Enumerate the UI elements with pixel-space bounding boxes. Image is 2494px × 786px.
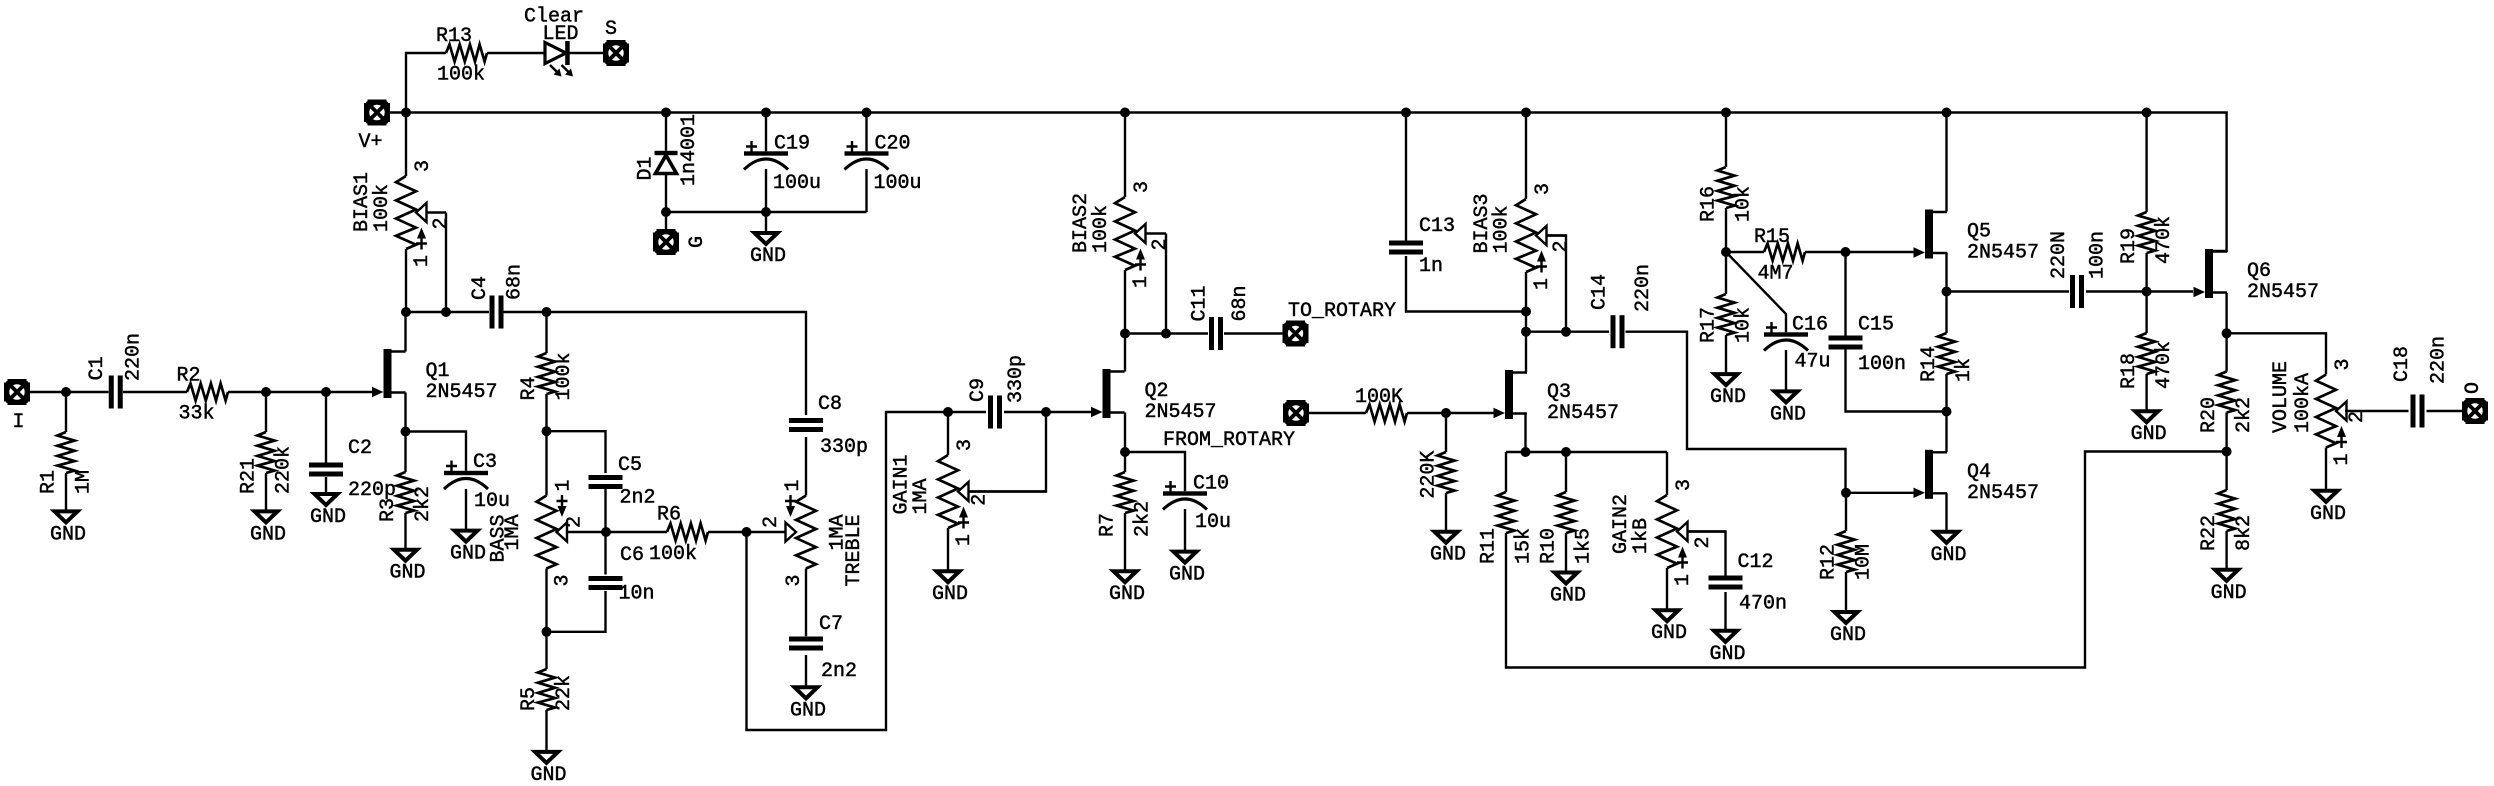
svg-text:100k: 100k — [649, 543, 697, 566]
wire Q4 gate node to R12 — [1845, 493, 1847, 531]
capacitor C2 plates — [309, 463, 343, 477]
svg-text:2N5457: 2N5457 — [1145, 401, 1217, 424]
svg-text:2: 2 — [1692, 536, 1715, 548]
svg-text:R2: R2 — [177, 365, 201, 388]
wire node to C2 — [325, 392, 327, 463]
svg-text:R15: R15 — [1754, 226, 1790, 249]
svg-text:R19: R19 — [2118, 228, 2141, 264]
svg-text:100u: 100u — [773, 172, 821, 195]
svg-text:2N5457: 2N5457 — [426, 381, 498, 404]
ground below C7 — [790, 687, 826, 722]
svg-text:330p: 330p — [820, 436, 868, 459]
wire node to C14 — [1526, 331, 1609, 333]
potentiometer GAIN1 1MA — [891, 439, 1047, 546]
junction R15 / C15 / Q5 gate — [1841, 247, 1851, 257]
svg-text:2: 2 — [1149, 238, 1172, 250]
connector G pad — [653, 229, 679, 255]
capacitor C10 10u — [1163, 473, 1231, 535]
capacitor C5 plates — [589, 475, 623, 489]
junction R14 / C15 / Q4 drain — [1942, 407, 1952, 417]
svg-text:GND: GND — [1550, 585, 1586, 608]
svg-text:C3: C3 — [473, 451, 497, 474]
svg-text:GND: GND — [2131, 423, 2167, 446]
svg-text:GND: GND — [390, 562, 426, 585]
wire rail to C20 — [865, 113, 867, 152]
wire I pad to C1 — [29, 391, 109, 393]
connector O output pad — [2462, 398, 2488, 424]
wire node to R21 — [265, 392, 267, 432]
capacitor C20 plates — [845, 141, 889, 170]
svg-text:1: 1 — [782, 479, 805, 491]
svg-text:GND: GND — [1710, 643, 1746, 666]
transistor Q1 2N5457 — [372, 349, 498, 404]
junction R10 top — [1561, 447, 1571, 457]
junction wiper / row — [441, 307, 451, 317]
junction Q2 source / R7 / C10 — [1120, 447, 1130, 457]
svg-text:R22: R22 — [2198, 515, 2221, 551]
wire rail to BIAS3 — [1525, 113, 1527, 200]
svg-text:C13: C13 — [1419, 215, 1455, 238]
svg-text:GND: GND — [310, 506, 346, 529]
potentiometer VOLUME 100kA — [2270, 358, 2369, 465]
svg-text:TO_ROTARY: TO_ROTARY — [1288, 300, 1396, 323]
svg-text:GND: GND — [2211, 582, 2247, 605]
svg-text:100k: 100k — [553, 352, 576, 400]
wire tone loop to C9 — [747, 412, 987, 730]
wire C19 to GND — [765, 212, 767, 233]
capacitor C1 220n — [86, 333, 146, 409]
ground below C12 — [1710, 631, 1746, 666]
wire node to R14 — [1945, 292, 1947, 334]
svg-text:C6: C6 — [620, 544, 644, 567]
wire to GAIN2 — [1666, 452, 1668, 495]
wire R7 to GND — [1124, 513, 1126, 571]
wire node to R7 — [1124, 452, 1126, 472]
wire to R11 — [1505, 452, 1507, 492]
wire rail to BIAS1 — [405, 113, 407, 177]
wire node to R22 — [2225, 452, 2227, 491]
capacitor C18 plates — [2411, 395, 2425, 428]
capacitor C4 plates — [490, 296, 504, 329]
capacitor C8 plates — [789, 418, 823, 432]
wire rail to BIAS2 — [1124, 113, 1126, 198]
wire Q5 drain to rail — [1945, 113, 1947, 212]
svg-text:3: 3 — [1532, 183, 1555, 195]
svg-text:100k: 100k — [371, 184, 394, 232]
junction C4 / R4 — [542, 307, 552, 317]
svg-text:2: 2 — [430, 217, 453, 229]
svg-text:1n: 1n — [1419, 255, 1443, 278]
connector V+ pad — [364, 100, 390, 126]
ground below VOLUME — [2310, 491, 2346, 526]
capacitor C9 330p — [967, 355, 1028, 429]
svg-text:C5: C5 — [618, 454, 642, 477]
wire node to C10 — [1125, 452, 1185, 491]
wire Q6 source down — [2225, 293, 2227, 333]
wire GAIN2 wiper to C12 — [1687, 532, 1726, 576]
wire wiper node to C6 — [604, 532, 606, 575]
capacitor C16 47u — [1764, 314, 1831, 374]
junction C2 / gate — [321, 387, 331, 397]
svg-text:1: 1 — [553, 479, 576, 491]
wire D1 anode down — [665, 174, 667, 213]
svg-text:220k: 220k — [273, 446, 296, 494]
svg-text:Q6: Q6 — [2247, 260, 2271, 283]
svg-text:GND: GND — [250, 523, 286, 546]
wire node to BASS — [545, 431, 547, 495]
wire C2 to GND — [325, 477, 327, 494]
svg-text:R11: R11 — [1478, 528, 1501, 564]
resistor R11 15k — [1478, 492, 1536, 564]
wire node diagonal to C16 — [1726, 252, 1786, 332]
capacitor C19 100u — [744, 133, 821, 196]
svg-text:220n: 220n — [2427, 336, 2450, 384]
svg-text:470k: 470k — [2153, 216, 2176, 264]
svg-text:2: 2 — [2346, 411, 2369, 423]
wire LED to S pad — [570, 52, 605, 54]
svg-text:R18: R18 — [2118, 353, 2141, 389]
wire rail to C19 — [765, 113, 767, 152]
junction BASS / C6 / R5 — [542, 627, 552, 637]
svg-text:GND: GND — [1169, 564, 1205, 587]
svg-text:C14: C14 — [1589, 274, 1612, 310]
wire Q2 source down — [1124, 413, 1126, 453]
capacitor C2 220p — [309, 437, 396, 502]
capacitor 220N plates — [2070, 275, 2084, 308]
wire C16 to GND — [1785, 350, 1787, 391]
capacitor C11 68n — [1189, 285, 1253, 350]
svg-text:GND: GND — [932, 583, 968, 606]
svg-text:3: 3 — [412, 160, 435, 172]
junction R19 / R18 / Q6 gate — [2142, 287, 2152, 297]
wire Q5 source down — [1945, 253, 1947, 292]
svg-text:15k: 15k — [1513, 528, 1536, 564]
wire C9 to Q2 gate node — [1004, 411, 1046, 413]
junction rail / Q5 drain — [1942, 108, 1952, 118]
svg-text:470k: 470k — [2153, 341, 2176, 389]
junction Q2 gate / GAIN1 wiper — [1041, 407, 1051, 417]
wire 100K to Q3 gate — [1407, 412, 1494, 414]
svg-text:GND: GND — [531, 764, 567, 786]
junction rail / C19 — [761, 108, 771, 118]
ground below R18 — [2131, 411, 2167, 446]
wire R5 to GND — [545, 710, 547, 752]
wire node to 220K — [1445, 413, 1447, 452]
wire GAIN1 to GND — [947, 528, 949, 571]
junction BIAS2 wiper — [1161, 329, 1171, 339]
resistor R6 100k — [649, 504, 708, 567]
svg-text:10k: 10k — [1733, 186, 1756, 222]
wire R16 to node — [1725, 208, 1727, 252]
wire node to GAIN1 — [947, 412, 949, 455]
svg-text:2N5457: 2N5457 — [1547, 402, 1619, 425]
svg-text:220N: 220N — [2048, 231, 2071, 279]
resistor R22 8k2 — [2198, 490, 2256, 551]
junction rail / BIAS2 — [1120, 108, 1130, 118]
capacitor C9 plates — [988, 396, 1002, 429]
potentiometer GAIN2 1kB — [1610, 479, 1726, 586]
capacitor C6 plates — [589, 576, 623, 590]
svg-text:220n: 220n — [123, 333, 146, 381]
svg-text:C7: C7 — [819, 613, 843, 636]
wire C13 to BIAS3 bottom node — [1406, 256, 1526, 312]
wire C10 to GND — [1184, 509, 1186, 552]
svg-text:C9: C9 — [967, 378, 990, 402]
diode D1 1n4001 — [655, 151, 678, 174]
junction C13 / BIAS3 — [1521, 307, 1531, 317]
svg-text:GND: GND — [1931, 544, 1967, 567]
wire Q4 source to GND — [1945, 493, 1947, 532]
wire node to C4 — [406, 311, 489, 313]
svg-text:R20: R20 — [2198, 397, 2221, 433]
resistor 100K — [1366, 404, 1407, 421]
junction rail / R19 — [2142, 108, 2152, 118]
wire C4 to C8 — [504, 312, 807, 415]
svg-text:1MA: 1MA — [910, 478, 933, 514]
svg-text:R5: R5 — [518, 687, 541, 711]
capacitor C8 330p — [789, 393, 868, 459]
svg-text:R10: R10 — [1538, 528, 1561, 564]
svg-text:R16: R16 — [1698, 186, 1721, 222]
svg-text:2: 2 — [969, 494, 992, 506]
wire node to R5 — [545, 632, 547, 669]
resistor R17 10k — [1698, 294, 1756, 343]
wire R6 to TREBLE wiper — [708, 531, 747, 533]
svg-text:100k: 100k — [437, 64, 485, 87]
wire R19 to node — [2145, 253, 2147, 292]
svg-text:1: 1 — [2331, 453, 2354, 465]
svg-text:Q1: Q1 — [426, 360, 450, 383]
wire node to R18 — [2145, 292, 2147, 334]
wire R17 to GND — [1725, 335, 1727, 374]
wire to R10 — [1565, 452, 1567, 492]
svg-text:R6: R6 — [657, 504, 681, 527]
wire rail to R16 — [1725, 113, 1727, 168]
wire VOLUME wiper to C18 — [2345, 410, 2409, 412]
resistor R14 1k — [1918, 333, 1976, 382]
junction R4 / C5 / BASS — [542, 426, 552, 436]
ground below Q4 source — [1931, 532, 1967, 567]
ground below R5 — [531, 752, 567, 786]
wire node to R20 — [2225, 333, 2227, 371]
capacitor C5 2n2 — [589, 454, 656, 510]
svg-text:2: 2 — [564, 516, 587, 528]
wire V+ rail — [389, 113, 2227, 252]
ground below R17 — [1710, 374, 1746, 409]
junction rail / BIAS3 — [1521, 108, 1531, 118]
ground below R7 — [1109, 571, 1145, 606]
svg-text:GND: GND — [1430, 544, 1466, 567]
svg-text:GND: GND — [1109, 583, 1145, 606]
svg-text:10M: 10M — [1853, 544, 1876, 580]
junction BIAS1 / row — [401, 307, 411, 317]
svg-text:1k: 1k — [1953, 358, 1976, 382]
svg-text:C1: C1 — [86, 356, 109, 380]
resistor R13 100k — [436, 25, 487, 87]
svg-text:2k2: 2k2 — [1132, 501, 1155, 537]
svg-text:S: S — [605, 18, 617, 41]
resistor R1 1M — [38, 432, 96, 494]
LED D2 Clear LED — [524, 6, 584, 77]
wire node to C5 — [547, 431, 606, 473]
wire R10 to GND — [1565, 533, 1567, 573]
ground below C19 — [750, 233, 786, 268]
svg-text:R7: R7 — [1097, 513, 1120, 537]
svg-text:C10: C10 — [1193, 473, 1229, 496]
svg-text:3: 3 — [783, 574, 806, 586]
wire node to Q5 gate — [1846, 251, 1914, 253]
wire node to Q2 drain — [1124, 334, 1126, 372]
svg-text:3: 3 — [2332, 358, 2355, 370]
wire C15 to R14 node — [1846, 350, 1947, 412]
resistor R21 220k — [238, 432, 296, 494]
connector FROM_ROTARY pad — [1283, 400, 1309, 426]
ground below R1 — [50, 511, 86, 546]
wire feedback R11 to R20 node — [1506, 452, 2227, 668]
svg-text:C16: C16 — [1792, 314, 1828, 337]
wire C6 to BASS bottom — [547, 591, 606, 632]
junction V+ / BIAS1 — [401, 108, 411, 118]
wire R20 bottom — [2225, 413, 2227, 452]
wire C7 to GND — [805, 655, 807, 687]
svg-text:2N5457: 2N5457 — [1967, 482, 2039, 505]
capacitor C6 10n — [589, 544, 655, 606]
wire C19 down — [765, 169, 767, 212]
svg-text:Q3: Q3 — [1547, 381, 1571, 404]
wire C1 to R2 — [123, 391, 187, 393]
svg-text:GND: GND — [450, 543, 486, 566]
svg-text:3: 3 — [1131, 181, 1154, 193]
svg-text:2N5457: 2N5457 — [1967, 242, 2039, 265]
wire V+ to R13 — [406, 53, 446, 113]
svg-text:C19: C19 — [774, 133, 810, 156]
svg-text:I: I — [13, 411, 25, 434]
wire node to R1 — [65, 392, 67, 432]
ground below R3 — [390, 550, 426, 585]
connector S pad — [603, 40, 629, 66]
resistor R5 22k — [518, 669, 576, 711]
svg-text:2: 2 — [1550, 240, 1573, 252]
junction R20 / R22 / feedback — [2222, 447, 2232, 457]
wire R21 to GND — [265, 473, 267, 511]
capacitor C20 100u — [845, 133, 922, 196]
junction BIAS3 / Q3 drain — [1521, 327, 1531, 337]
capacitor C3 10u — [444, 451, 510, 513]
svg-text:GND: GND — [790, 699, 826, 722]
svg-text:1: 1 — [1672, 574, 1695, 586]
wire C5 to wiper node — [604, 489, 606, 532]
svg-text:GND: GND — [1710, 386, 1746, 409]
capacitor C14 220n — [1589, 264, 1656, 348]
connector TO_ROTARY pad — [1283, 321, 1309, 347]
svg-text:LED: LED — [543, 23, 579, 46]
svg-text:220K: 220K — [1418, 451, 1441, 499]
svg-text:2N5457: 2N5457 — [2247, 281, 2319, 304]
wire Q2 gate node to GAIN1 wiper — [968, 412, 1047, 492]
capacitor C3 plates — [444, 461, 488, 490]
wire R22 to GND — [2225, 531, 2227, 570]
svg-text:R3: R3 — [377, 498, 400, 522]
capacitor C7 plates — [789, 637, 823, 651]
capacitor C16 plates — [1764, 322, 1808, 351]
svg-text:1M: 1M — [73, 470, 96, 494]
ground below C3 — [450, 531, 486, 566]
capacitor C7 2n2 — [789, 613, 857, 683]
svg-text:R13: R13 — [436, 25, 472, 48]
svg-text:2: 2 — [760, 516, 783, 528]
wire node to Q4 drain — [1945, 412, 1947, 452]
svg-text:GND: GND — [750, 245, 786, 268]
connector I input pad — [4, 379, 30, 405]
svg-text:10k: 10k — [1733, 307, 1756, 343]
wire FROM_ROTARY to 100K — [1308, 412, 1366, 414]
junction Q4 gate / R12 — [1841, 488, 1851, 498]
svg-text:D1: D1 — [635, 156, 658, 180]
resistor R3 2k2 — [377, 472, 435, 522]
wire R2 to Q1 gate — [228, 391, 373, 393]
svg-text:R17: R17 — [1698, 307, 1721, 343]
wire rail to C13 — [1405, 113, 1407, 241]
wire rail to R19 — [2145, 113, 2147, 213]
potentiometer BASS 1MA — [488, 479, 607, 586]
transistor Q4 2N5457 — [1914, 450, 2040, 505]
svg-text:C12: C12 — [1738, 551, 1774, 574]
ground below C16 — [1770, 391, 1806, 426]
wire BIAS3 to Q3 drain — [1525, 272, 1527, 372]
wire R15 to Q5 gate node — [1805, 251, 1846, 253]
wire node to C3 — [406, 432, 467, 471]
ground below R12 — [1830, 612, 1866, 647]
wire Q6 source to VOLUME — [2227, 333, 2326, 374]
capacitor C13 plates — [1389, 241, 1423, 255]
junction rail / C13 — [1401, 108, 1411, 118]
svg-text:GND: GND — [1830, 624, 1866, 647]
svg-text:GND: GND — [50, 523, 86, 546]
wire Q3 source down — [1524, 414, 1526, 453]
wire coupling cap to R18/R19 node — [2086, 290, 2147, 292]
svg-text:O: O — [2462, 382, 2485, 394]
junction Q3 source — [1521, 447, 1531, 457]
ground below R21 — [250, 511, 286, 546]
wire node to C15 — [1844, 252, 1846, 336]
svg-text:G: G — [686, 236, 709, 248]
wire R1 to GND — [65, 473, 67, 511]
ground below GAIN2 — [1651, 610, 1687, 645]
svg-text:100k: 100k — [1090, 205, 1113, 253]
svg-text:C4: C4 — [469, 276, 492, 300]
svg-text:TREBLE: TREBLE — [843, 514, 866, 586]
resistor R2 33k — [177, 365, 229, 426]
wire ground bus D1-C19-C20 — [666, 211, 867, 213]
resistor 220K — [1418, 451, 1455, 499]
junction R16 / R17 / R15 / C16 — [1721, 247, 1731, 257]
svg-text:100u: 100u — [874, 172, 922, 195]
junction BIAS3 wiper / C14 — [1561, 327, 1571, 337]
ground below C2 — [310, 494, 346, 529]
wire R3 to GND — [404, 513, 406, 550]
svg-text:33k: 33k — [179, 403, 215, 426]
resistor R4 100k — [518, 352, 576, 400]
svg-text:68n: 68n — [1229, 285, 1252, 321]
wire Q1 drain up — [404, 312, 406, 352]
svg-text:R14: R14 — [1918, 346, 1941, 382]
resistor R7 2k2 — [1097, 472, 1155, 537]
potentiometer BIAS3 100k — [1471, 183, 1573, 290]
wire node to Q2 gate — [1046, 411, 1091, 413]
capacitor C15 plates — [1829, 336, 1863, 350]
wire R4 down — [545, 394, 547, 431]
junction rail / C20 — [862, 108, 872, 118]
